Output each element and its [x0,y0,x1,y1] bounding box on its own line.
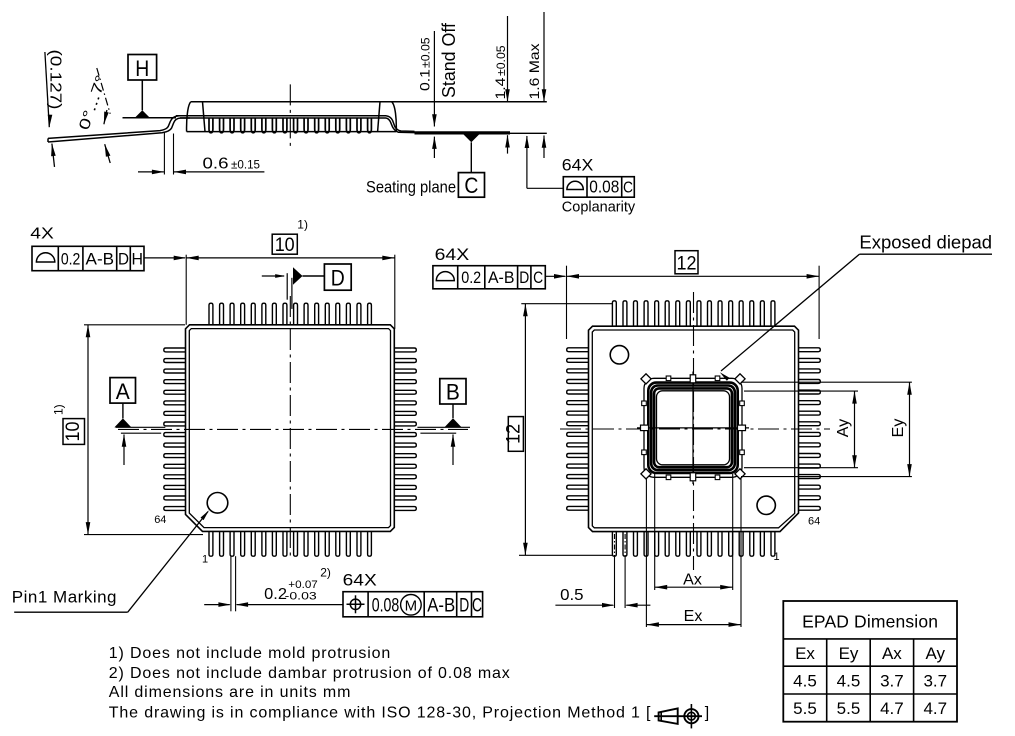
datum C seating plane symbol [463,134,479,142]
svg-text:2) Does not include dambar pro: 2) Does not include dambar protrusion of… [109,665,511,682]
svg-text:64X: 64X [343,572,377,590]
svg-text:Exposed diepad: Exposed diepad [859,231,992,252]
angle dimension 0deg..7deg [97,68,110,114]
dimension 1.6 Max overall height [543,12,545,102]
svg-text:4X: 4X [30,226,54,243]
EPAD dimension table [783,601,957,722]
svg-text:D: D [331,266,345,291]
top view centerlines [289,296,291,560]
svg-text:All dimensions are in units mm: All dimensions are in units mm [109,684,351,701]
svg-text:Ax: Ax [882,644,902,663]
svg-text:4.5: 4.5 [793,671,817,690]
svg-text:10: 10 [63,422,84,442]
svg-text:(0.127): (0.127) [47,50,64,110]
bottom view package body outline [589,326,799,531]
svg-text:The drawing is in compliance w: The drawing is in compliance with ISO 12… [109,704,652,721]
dimension (0.127) lead thickness [45,52,49,127]
die pad small edge tabs [666,376,671,381]
svg-text:C: C [533,268,543,287]
svg-text:Ex: Ex [684,608,703,625]
svg-text:4.7: 4.7 [880,699,904,718]
top view body inner edge [189,329,390,528]
svg-text:64X: 64X [562,157,594,175]
svg-text:Stand Off: Stand Off [439,22,459,98]
svg-text:]: ] [705,704,709,721]
top view pins: right row [394,348,416,352]
svg-text:0.5: 0.5 [560,587,584,604]
svg-text:Ex: Ex [795,644,815,663]
svg-text:Coplanarity: Coplanarity [562,200,636,216]
svg-text:M: M [405,597,418,614]
dimension 0.5 pitch [614,534,616,556]
dimension Ex [645,478,647,627]
svg-text:A-B: A-B [488,268,515,287]
side view vertical centerline [289,84,291,149]
svg-text:12: 12 [503,424,524,444]
svg-text:C: C [623,180,633,197]
side view far-side leads (16) [209,118,213,133]
svg-text:10: 10 [275,235,295,256]
dimension Ax [654,474,656,590]
svg-text:A-B: A-B [427,596,455,617]
notes [109,645,709,721]
datum H symbol [128,55,157,81]
side view lead row top lines [176,115,386,117]
svg-text:1: 1 [774,551,780,563]
svg-text:Seating plane: Seating plane [366,179,456,197]
datum B indicator [440,379,466,404]
svg-text:EPAD Dimension: EPAD Dimension [802,612,938,632]
side view left lead with bent foot [48,116,190,139]
svg-text:5.5: 5.5 [793,699,817,718]
svg-text:Ax: Ax [683,571,702,588]
svg-text:64: 64 [154,514,166,526]
bottom view centerlines [693,292,695,570]
svg-text:64X: 64X [435,246,470,264]
svg-text:4.7: 4.7 [923,699,947,718]
svg-text:Ay: Ay [835,419,852,437]
top view package body outline [186,325,395,532]
svg-text:+0.07: +0.07 [288,579,318,591]
svg-text:H: H [131,250,143,269]
top view pins: bottom row [209,531,213,556]
svg-text:Ey: Ey [839,644,859,663]
svg-text:D: D [118,250,129,269]
gauge plane line at H [123,117,177,119]
index circle bottom-right [757,496,775,514]
svg-text:5.5: 5.5 [837,699,861,718]
svg-text:C: C [464,173,478,198]
svg-text:A: A [116,379,130,404]
coplanarity feature control frame 64X 0.08 C [563,177,634,198]
dimension 0.1 standoff [433,31,435,127]
die pad corner features [641,374,651,384]
svg-text:Ay: Ay [926,644,946,663]
svg-text:±0.05: ±0.05 [496,45,508,76]
svg-text:C: C [472,596,482,617]
dimension 0.6 +/-0.15 foot length [163,132,165,175]
datum A indicator [110,378,136,404]
svg-text:H: H [135,56,149,81]
svg-text:3.7: 3.7 [923,671,947,690]
die pad mid-side tabs [690,375,696,383]
bottom view pins: left row [567,348,589,352]
svg-text:1.4: 1.4 [493,77,508,100]
die pad crosshair [637,427,749,429]
side view right lead foot to seating [386,116,415,132]
dimension 1.4 +/-0.05 body thickness [507,16,509,102]
dimension Ey [741,381,912,383]
svg-text:1: 1 [202,554,208,566]
svg-text:0.2: 0.2 [264,586,287,603]
svg-text:0.2: 0.2 [461,268,481,287]
dimension 12 horizontal [566,266,568,339]
dimension Ay [744,390,858,392]
svg-text:64: 64 [808,516,820,528]
svg-text:±0.15: ±0.15 [231,159,260,171]
bottom view pins: top row [612,301,616,326]
svg-text:3.7: 3.7 [880,671,904,690]
bottom view body inner edge [592,330,794,528]
svg-text:D: D [459,596,469,617]
coplanarity up-arrow leader [526,136,528,188]
svg-text:A-B: A-B [86,250,115,269]
dimension 12 vertical [521,303,612,305]
first angle projection symbol [654,704,702,728]
dimension 0.2 lead width [230,556,232,611]
dimension 10 vertical [84,324,185,326]
datum D indicator [286,273,288,300]
svg-text:Ey: Ey [890,419,907,438]
top view pins: top row [209,303,213,325]
svg-text:-0.03: -0.03 [285,591,317,603]
svg-text:0.6: 0.6 [203,155,229,172]
svg-text:0.08: 0.08 [589,177,619,197]
seating plane line (thick segment + thin) [415,131,511,134]
dimension 10 horizontal [185,255,187,325]
index circle top-left [610,346,628,364]
svg-text:12: 12 [677,253,697,274]
svg-text:0.2: 0.2 [61,250,81,269]
bottom view pins: right row [799,348,821,352]
bottom view pins: bottom row [612,532,616,557]
svg-text:B: B [446,380,460,405]
exposed die pad [644,378,742,477]
svg-text:0.08: 0.08 [372,596,400,617]
svg-text:1) Does not include mold protr: 1) Does not include mold protrusion [109,645,391,662]
svg-text:4.5: 4.5 [837,671,861,690]
svg-text:D: D [519,268,529,287]
top view pins: left row [164,348,186,352]
pin 1 marking circle [207,493,228,514]
svg-text:±0.05: ±0.05 [420,37,432,68]
svg-text:Pin1 Marking: Pin1 Marking [12,588,117,607]
svg-text:1.6 Max: 1.6 Max [526,44,542,100]
svg-text:1): 1) [297,217,308,231]
svg-text:2): 2) [320,565,331,579]
svg-text:1): 1) [52,404,66,415]
side view package body [187,102,191,132]
svg-text:0.1: 0.1 [417,69,432,91]
